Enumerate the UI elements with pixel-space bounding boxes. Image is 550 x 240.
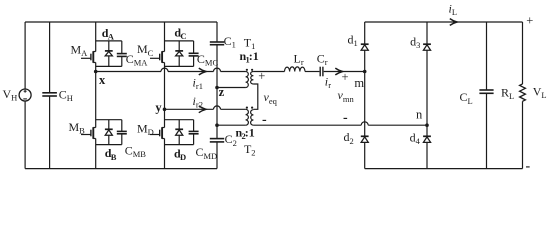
wire M_A/M_B interleg <box>95 72 97 128</box>
label i_r2 <box>193 94 203 110</box>
wire M_B source to bottom rail <box>95 139 97 169</box>
label m <box>354 76 364 90</box>
capacitor C_H <box>42 93 57 96</box>
svg-text:m: m <box>354 76 364 90</box>
svg-text:M: M <box>69 120 80 134</box>
label C_MD <box>196 145 218 161</box>
label i_r1 <box>193 76 203 92</box>
wire d_3 to node n <box>426 50 428 125</box>
label M_C <box>137 42 154 58</box>
label C_H <box>59 87 73 103</box>
label d_B <box>105 146 117 162</box>
label i_L <box>449 1 458 17</box>
wire d_1 to node m <box>364 50 366 71</box>
current arrow i_r2 <box>199 106 206 113</box>
svg-text:D: D <box>180 152 186 162</box>
label V_L plus <box>526 14 533 28</box>
wire C_MC branch upper <box>193 41 195 53</box>
svg-text:eq: eq <box>269 96 278 106</box>
svg-text:C: C <box>148 48 154 58</box>
svg-text:H: H <box>67 93 73 103</box>
capacitor C_MD <box>189 131 199 133</box>
wire left edge below source <box>24 101 26 169</box>
svg-text:r: r <box>325 57 328 67</box>
label V_L minus <box>526 159 531 174</box>
label V_H <box>3 87 18 103</box>
label n_1:1 <box>240 49 259 65</box>
wire d_B branch lower <box>108 135 110 144</box>
wire bottom rail (input) <box>25 168 217 170</box>
wire M_A snubber loop top <box>96 40 122 42</box>
capacitor C_1 <box>210 42 224 45</box>
wire C_MD branch upper <box>193 120 195 132</box>
transformer T1 primary winding <box>246 72 249 88</box>
wire M_C/M_D interleg <box>164 109 166 127</box>
wire C_MA branch upper <box>121 41 123 54</box>
wire C_MB branch upper <box>121 120 123 132</box>
svg-text:D: D <box>148 127 154 137</box>
wire C_H branch lower <box>49 96 51 169</box>
label T_2 <box>244 142 256 158</box>
svg-text:C: C <box>225 132 233 146</box>
diode d_A <box>105 51 113 56</box>
wire d_A branch upper <box>108 41 110 51</box>
current arrow i_r <box>335 68 342 75</box>
svg-text:1: 1 <box>354 38 358 48</box>
svg-text:mn: mn <box>343 94 355 104</box>
transistor M_B <box>81 127 96 139</box>
wire d_D branch lower <box>178 135 180 144</box>
diode d_C <box>175 51 183 56</box>
transistor M_A <box>81 51 96 63</box>
svg-text:r1: r1 <box>196 81 203 91</box>
svg-text:MB: MB <box>133 149 147 159</box>
wire bottom rail (output) <box>365 168 523 170</box>
wire C_r to node m <box>324 71 365 73</box>
label d_A <box>102 26 115 42</box>
current arrow i_L <box>450 19 457 26</box>
resistor R_L <box>520 84 526 101</box>
svg-text:M: M <box>137 122 148 136</box>
capacitor C_r <box>320 67 323 77</box>
svg-text:B: B <box>111 152 117 162</box>
capacitor C_2 <box>210 139 224 142</box>
wire d_2 to bottom rail <box>364 142 366 168</box>
label z <box>219 85 225 99</box>
svg-text:x: x <box>99 73 106 87</box>
label d_1 <box>348 33 358 49</box>
node m <box>363 70 367 74</box>
svg-text:L: L <box>294 51 301 65</box>
transformer T1 polarity dot secondary <box>251 69 253 71</box>
diode d_D <box>175 129 183 135</box>
wire M_A source to node x <box>95 63 97 72</box>
wire C_MD branch lower <box>193 134 195 145</box>
wire C_1 branch from top rail <box>216 22 218 42</box>
svg-text:r: r <box>301 57 304 67</box>
svg-text::1: :1 <box>245 126 255 140</box>
label C_2 <box>225 132 237 148</box>
label C_MA <box>126 52 149 68</box>
svg-text:A: A <box>108 32 115 42</box>
wire T2 junction to C_2 <box>216 125 218 138</box>
wire right edge upper <box>522 22 524 84</box>
label C_MC <box>197 52 219 68</box>
wire d_D branch upper <box>178 120 180 129</box>
svg-text:3: 3 <box>416 40 420 50</box>
wire M_C snubber loop bottom <box>165 65 194 67</box>
node n <box>425 123 429 127</box>
wire M_D snubber loop top <box>165 119 194 121</box>
wire node n to d_4 <box>426 125 428 136</box>
transformer T2 polarity dot secondary <box>251 107 253 109</box>
label v_eq plus <box>258 69 265 83</box>
svg-text:M: M <box>71 42 82 56</box>
svg-text:+: + <box>342 70 349 84</box>
wire C_MB branch lower <box>121 134 123 145</box>
capacitor C_MB <box>117 131 127 133</box>
svg-text:C: C <box>224 34 232 48</box>
wire node x to T1 primary <box>96 68 246 71</box>
wire right edge lower <box>522 101 524 168</box>
transformer T2 primary winding <box>246 109 249 125</box>
wire d_C branch lower <box>178 56 180 67</box>
label M_A <box>71 42 89 58</box>
wire M_D snubber loop bottom <box>165 144 194 146</box>
svg-text:-: - <box>343 111 348 126</box>
label V_L <box>533 85 547 101</box>
svg-text:C: C <box>317 51 325 65</box>
wire node z to T1 primary bottom <box>217 87 246 89</box>
wire output left leg top <box>364 22 366 44</box>
svg-text:M: M <box>137 42 148 56</box>
label d_3 <box>410 34 420 50</box>
wire L_r to C_r <box>305 71 319 73</box>
node x <box>94 70 98 74</box>
capacitor C_L <box>479 90 493 93</box>
wire d_A branch lower <box>108 56 110 67</box>
wire T1 secondary top to L_r <box>253 71 284 73</box>
wire M_B snubber loop bottom <box>96 144 122 146</box>
wire C_H branch upper <box>49 22 51 93</box>
wire top rail (output) <box>365 21 523 23</box>
wire C_2 to bottom rail <box>216 142 218 169</box>
wire d_4 to bottom rail <box>426 142 428 168</box>
label R_L <box>501 86 514 102</box>
svg-text:L: L <box>468 96 473 106</box>
label L_r <box>294 51 304 67</box>
wire M_A snubber loop bottom <box>96 65 122 67</box>
label M_B <box>69 120 86 136</box>
wire output right leg top <box>426 22 428 44</box>
capacitor C_MC <box>189 53 199 56</box>
transistor M_D <box>150 127 165 139</box>
svg-text:C: C <box>197 52 205 66</box>
label C_1 <box>224 34 236 50</box>
label i_r <box>325 74 331 90</box>
label C_r <box>317 51 328 67</box>
wire top rail (input) <box>25 21 217 23</box>
svg-text:L: L <box>541 90 546 100</box>
wire left edge above source <box>24 22 26 89</box>
svg-text:R: R <box>501 86 509 100</box>
wire T2 junction to T2 primary bottom <box>217 124 246 126</box>
svg-text:C: C <box>460 90 468 104</box>
wire node m to d_2 <box>364 72 366 137</box>
diode d_2 <box>361 136 369 142</box>
svg-text:C: C <box>59 87 67 101</box>
svg-text:C: C <box>125 143 133 157</box>
wire d_B branch upper <box>108 120 110 129</box>
svg-text:C: C <box>126 52 134 66</box>
wire M_D source to bottom rail <box>164 139 166 169</box>
label T_1 <box>244 36 256 52</box>
svg-text:4: 4 <box>416 136 421 146</box>
voltage source V_H <box>19 89 31 101</box>
wire C_L branch lower <box>486 93 488 168</box>
inductor L_r <box>285 67 306 72</box>
label n <box>416 108 423 122</box>
label x <box>99 73 106 87</box>
svg-text:1: 1 <box>232 40 236 50</box>
label y <box>155 101 162 115</box>
svg-text:n: n <box>416 108 423 122</box>
diode d_B <box>105 129 113 135</box>
diode d_4 <box>423 136 431 142</box>
label d_2 <box>344 130 354 146</box>
svg-text:+: + <box>526 14 533 28</box>
label d_C <box>174 26 186 42</box>
label v_mn minus <box>343 111 348 126</box>
wire M_C snubber loop top <box>165 40 194 42</box>
current arrow i_r1 <box>199 68 206 75</box>
wire C_L branch upper <box>486 22 488 90</box>
label C_L <box>460 90 473 106</box>
wire M_B snubber loop top <box>96 119 122 121</box>
svg-text:-: - <box>526 159 531 174</box>
wire C_MA branch lower <box>121 56 123 66</box>
svg-text:C: C <box>180 31 186 41</box>
svg-text:y: y <box>155 101 162 115</box>
wire T2 secondary bottom to node n <box>253 122 427 125</box>
diode d_3 <box>423 44 431 50</box>
wire d_C branch upper <box>178 41 180 51</box>
label C_MB <box>125 143 147 159</box>
label d_4 <box>410 131 421 147</box>
wire M_C drain from top rail <box>164 22 166 52</box>
label M_D <box>137 122 154 138</box>
transformer T1 polarity dot primary <box>246 69 248 71</box>
svg-text::1: :1 <box>249 49 259 63</box>
svg-text:C: C <box>196 145 204 159</box>
diode d_1 <box>361 44 369 50</box>
junction T2 primary return <box>215 123 219 127</box>
svg-text:MA: MA <box>134 57 149 67</box>
label v_eq minus <box>262 112 267 127</box>
svg-text:L: L <box>452 7 457 17</box>
wire C_1 to node z <box>216 45 218 88</box>
wire node z down to T2 junction <box>216 88 218 126</box>
svg-text:L: L <box>509 91 514 101</box>
label v_mn <box>338 88 355 104</box>
transformer T2 polarity dot primary <box>246 107 248 109</box>
transistor M_C <box>150 51 165 63</box>
label n_2:1 <box>236 126 255 142</box>
node y <box>163 108 167 112</box>
wire T1 secondary bottom jog <box>253 84 257 109</box>
svg-text:A: A <box>81 48 88 58</box>
label v_mn plus <box>342 70 349 84</box>
svg-text:r2: r2 <box>196 99 203 109</box>
capacitor C_MA <box>117 54 127 57</box>
node z <box>215 86 219 90</box>
label v_eq <box>264 90 278 106</box>
svg-text:2: 2 <box>251 148 255 158</box>
wire M_A drain from top rail <box>95 22 97 52</box>
wire C_MC branch lower <box>193 56 195 67</box>
svg-text:r: r <box>328 80 331 90</box>
transformer T2 secondary winding <box>251 110 254 126</box>
label d_D <box>174 146 186 162</box>
wire M_C source to node y <box>164 63 166 110</box>
svg-text:MD: MD <box>204 151 218 161</box>
wire node y to T2 primary <box>165 106 246 109</box>
svg-text:H: H <box>11 92 17 102</box>
svg-text:2: 2 <box>350 136 354 146</box>
transformer T1 secondary winding <box>251 72 254 85</box>
svg-text:B: B <box>79 125 85 135</box>
